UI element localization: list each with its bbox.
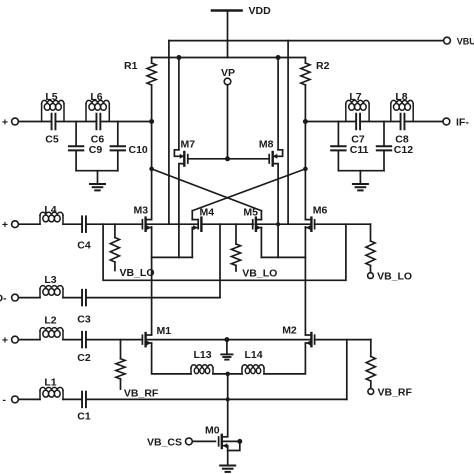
svg-text:M1: M1 [157,325,172,337]
wire LO+ bus to M3 gate [86,223,142,225]
inductor L5 [42,91,64,122]
svg-text:C6: C6 [91,134,105,146]
inductor L3 [40,274,63,298]
wire M4 M5 gate tie with taps [201,223,253,225]
svg-text:C11: C11 [350,144,369,156]
wire L4 to C4 [63,223,82,225]
capacitor C9 [69,122,102,171]
svg-text:L3: L3 [44,274,56,286]
wire diagonal left-IF to M5 drain [150,167,262,211]
transistor M5 [243,207,261,258]
svg-text:M8: M8 [259,139,274,151]
wire bulk tie M5 side [256,223,288,225]
svg-text:VB_CS: VB_CS [147,437,182,449]
capacitor C11 [331,122,368,171]
wire tail2 M5 M6 M8 join [261,256,305,258]
wire LO- lead [19,297,40,299]
wire diagonal right-IF to M4 drain [192,167,307,211]
inductor L7 [346,91,369,122]
inductor L8 [391,91,413,122]
svg-text:VB_LO: VB_LO [377,271,412,283]
wire L13 L14 tail junction [213,372,242,376]
wire shunt bottom bar [76,170,118,172]
resistor R2 [301,58,330,122]
port RF+ [2,335,19,347]
svg-text:L4: L4 [44,204,56,216]
inductor L14 [242,349,264,374]
wire right stack M6 drain [304,122,306,220]
capacitor C12 [377,122,413,171]
transistor M3 [134,205,169,231]
svg-text:M0: M0 [205,425,220,437]
capacitor C3 [77,290,91,326]
ground IF- network [353,171,368,191]
svg-text:C8: C8 [395,134,409,146]
power VDD [212,5,271,58]
capacitor C1 [77,392,91,423]
svg-text:IF-: IF- [456,117,469,129]
ground center bulk [221,338,232,360]
inductor L6 [86,91,109,122]
wire RF+ lead [19,339,40,341]
svg-text:VB_LO: VB_LO [242,268,277,280]
svg-text:L14: L14 [244,349,262,361]
wire M2 gate lead [315,339,371,341]
capacitor C7 [351,114,365,146]
wire node1 [56,121,97,123]
svg-text:C5: C5 [45,134,59,146]
wire M6 gate lead [315,223,371,225]
wire RF- lead [19,398,40,400]
inductor L4 [40,204,63,224]
resistor VB_LO 1 [110,224,154,279]
wire L3 to C3 [63,297,82,299]
wire left stack M3 drain [151,122,153,220]
transistor M0 [205,425,242,466]
wire VBULK right drop [287,41,289,225]
transistor M4 [192,207,214,258]
ground IF+ network [90,171,105,191]
wire IF- node [305,121,356,123]
svg-text:L13: L13 [193,349,211,361]
svg-text:VBULK: VBULK [457,37,474,47]
port VB_CS [147,437,215,449]
svg-text:VP: VP [221,67,235,79]
resistor VB_RF 1 [116,340,159,400]
wire bulk tie M3 side [169,223,198,225]
capacitor C5 [45,114,59,146]
ground M0 source [220,465,235,467]
svg-text:L1: L1 [44,377,56,389]
svg-text:O-: O- [0,293,7,305]
wire L2 to C2 [63,339,82,341]
svg-text:VB_RF: VB_RF [378,387,413,399]
wire tail vertical [227,374,229,437]
node VBULK rail [169,37,474,47]
svg-text:L7: L7 [349,91,361,103]
capacitor C8 [395,114,409,146]
svg-text:M3: M3 [134,205,149,217]
inductor L1 [40,377,63,400]
port LO- [0,293,18,305]
wire tail1 M3 M4 M7 join [152,256,193,258]
wire VBULK left drop [168,41,170,225]
svg-text:VDD: VDD [249,5,272,17]
wire left stack M3 source to M1 drain [151,227,153,335]
svg-text:R1: R1 [124,60,138,72]
port IF- [405,117,470,129]
svg-text:C4: C4 [77,240,91,252]
wire LO+ lead [19,223,40,225]
wire LO+ distribution [103,224,346,280]
wire shunt bottom bar right [338,170,384,172]
svg-text:M2: M2 [282,325,297,337]
wire IF+ input [19,121,52,123]
wire LO- riser [219,224,221,297]
inductor L13 [191,349,213,374]
svg-text:M7: M7 [181,139,196,151]
transistor M8 [259,58,283,258]
port IF+ [2,117,19,129]
svg-text:C10: C10 [129,144,148,156]
transistor M7 [174,58,195,258]
svg-text:R2: R2 [316,60,330,72]
transistor M1 [142,325,227,346]
wire RF+ to M1 gate [86,339,142,341]
resistor VB_LO 3 [366,224,412,282]
svg-text:C2: C2 [77,352,91,364]
svg-text:L6: L6 [90,91,102,103]
svg-text:VB_LO: VB_LO [120,267,155,279]
wire node2 to IF node [100,121,151,123]
wire M2 source down [264,343,305,374]
wire RF- to riser [86,398,347,400]
wire RF- riser to M2 gate [346,340,348,400]
transistor M2 [227,325,315,347]
capacitor C10 [111,122,148,171]
svg-text:L2: L2 [44,315,56,327]
wire between [360,121,400,123]
capacitor C4 [77,216,91,251]
resistor VB_LO 2 [231,224,277,279]
capacitor C2 [77,332,91,364]
svg-text:M6: M6 [313,205,328,217]
wire VDD rail [152,56,306,60]
svg-text:VB_RF: VB_RF [124,388,159,400]
port LO+ [2,219,19,231]
svg-text:C12: C12 [394,144,413,156]
resistor R1 [124,58,156,122]
inductor L2 [40,315,63,340]
resistor VB_RF 2 [366,340,412,399]
svg-text:+: + [2,219,8,231]
svg-text:L8: L8 [395,91,407,103]
svg-text:C1: C1 [77,411,91,423]
wire M1 source down [152,343,191,374]
svg-text:C9: C9 [89,144,103,156]
svg-text:-: - [3,394,7,406]
wire LO- to riser [86,297,220,299]
port RF- [3,394,19,406]
svg-text:+: + [2,117,8,129]
transistor M6 [288,205,327,231]
capacitor C6 [91,114,105,146]
wire VP gate line [188,157,269,161]
svg-text:L5: L5 [45,91,57,103]
wire right stack M6 source to M2 drain [304,227,306,335]
svg-text:+: + [2,335,8,347]
svg-text:C3: C3 [77,314,91,326]
port VP [221,67,235,159]
wire L1 to C1 [63,398,82,400]
